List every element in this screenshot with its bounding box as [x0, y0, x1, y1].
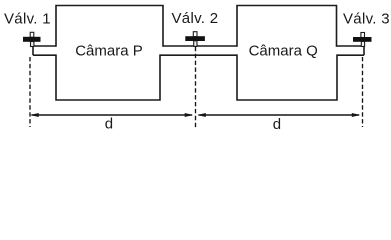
node dashed reference line valve 3: [362, 57, 364, 127]
node dashed reference line valve 2: [195, 47, 197, 128]
chamber Q upper box: [237, 6, 337, 47]
wire tube top middle segment: [163, 45, 237, 47]
node dashed reference line valve 1: [29, 57, 31, 127]
wire tube top right segment: [337, 45, 365, 47]
wire tube top left segment: [33, 45, 56, 47]
valve V3: [353, 33, 372, 47]
chamber P upper box: [56, 6, 163, 47]
svg-text:Válv. 2: Válv. 2: [172, 10, 219, 27]
dimension line d right: [197, 113, 360, 117]
dimension line d left: [30, 113, 193, 117]
valve V2: [185, 32, 205, 47]
svg-text:Válv. 1: Válv. 1: [4, 10, 51, 27]
wire tube bottom middle segment: [160, 54, 237, 56]
svg-text:d: d: [105, 116, 113, 132]
svg-text:Câmara Q: Câmara Q: [249, 43, 318, 60]
wire tube bottom left segment: [33, 54, 56, 56]
chamber P lower box: [56, 54, 160, 100]
wire tube right end wall: [363, 46, 365, 55]
svg-text:Câmara P: Câmara P: [75, 42, 143, 59]
svg-text:d: d: [273, 116, 281, 132]
svg-text:Válv. 3: Válv. 3: [343, 10, 390, 27]
wire tube left end wall: [32, 46, 34, 55]
valve V1: [23, 32, 41, 46]
chamber Q lower box: [237, 54, 337, 100]
wire tube bottom right segment: [337, 54, 364, 56]
